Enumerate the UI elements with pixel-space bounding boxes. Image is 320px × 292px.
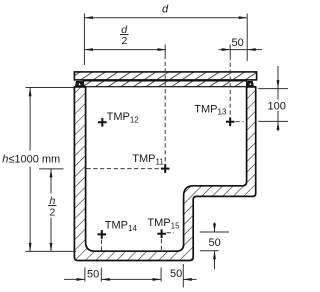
dim line 50 right vertical top seg — [214, 223, 216, 233]
arrow 100 bottom (outside, points up) — [277, 121, 280, 129]
arrow 100 top (outside, points down) — [277, 80, 280, 89]
d/2 fraction bar — [120, 34, 129, 36]
ext line interior bottom right — [200, 250, 219, 252]
h/2 fraction bar — [48, 205, 56, 207]
arrow h bottom — [29, 243, 32, 252]
dim line d — [84, 17, 247, 19]
svg-text:50: 50 — [170, 268, 182, 280]
cross TMP13 — [226, 118, 235, 127]
dashed line TMP11 level horizontal — [87, 168, 163, 170]
ext line interior top left — [26, 87, 75, 89]
dim line h/2 lower segment — [50, 218, 52, 252]
dim line bottom right outer — [183, 278, 196, 280]
dim line h lower segment — [29, 167, 31, 252]
svg-text:100: 100 — [268, 101, 286, 113]
arrow 50right top (outside, points down) — [213, 224, 216, 233]
svg-text:2: 2 — [122, 35, 128, 47]
arrow 50top left (outside) — [222, 48, 231, 51]
ext line bottom 50a right — [100, 268, 102, 282]
centerline d/2 down to TMP11 — [164, 55, 166, 167]
ext line bottom 50a left — [84, 268, 86, 282]
ext line 100 bottom — [258, 120, 288, 122]
lid flange bar — [84, 81, 247, 87]
cross TMP11 — [161, 164, 170, 173]
ext line bottom 50b left — [160, 268, 162, 282]
ext line left interior (top dims) — [83, 14, 85, 66]
cross TMP12 — [98, 118, 107, 127]
label 100 right, white bg — [267, 100, 287, 112]
ext line bottom 50b right — [182, 264, 184, 288]
ext line TMP15 level right — [200, 231, 229, 233]
dash TMP13 to right wall — [236, 121, 244, 123]
dim line 50 top — [219, 49, 263, 51]
fraction bars — [48, 35, 129, 206]
arrow h/2 bottom — [50, 243, 53, 252]
dim line h upper segment — [29, 88, 31, 151]
ext line TMP11 level left — [39, 168, 64, 170]
dim line d/2 — [84, 49, 166, 51]
dash TMP15 to ext line — [167, 232, 175, 234]
ext line top of 50 dim — [229, 45, 231, 57]
label h/2 fraction — [46, 195, 58, 217]
dashed construction lines — [87, 55, 244, 251]
svg-text:50: 50 — [87, 268, 99, 280]
dim line bottom middle — [101, 278, 161, 280]
dashed line down to TMP13 — [229, 56, 231, 120]
arrow 50top right (outside) — [247, 48, 256, 51]
arrow d left — [84, 16, 93, 19]
svg-text:2: 2 — [50, 207, 56, 219]
arrow d/2 right — [158, 48, 167, 51]
svg-text:d: d — [162, 4, 169, 16]
label 50 right vertical, white bg — [206, 237, 223, 249]
dashed stub below TMP14 — [101, 240, 103, 252]
arrow 50a right (inside-pointing from middle) — [101, 278, 110, 281]
ext line right interior (top dims) — [246, 14, 248, 62]
cross TMP15 — [157, 229, 166, 238]
dashed stub below TMP15 — [160, 239, 162, 251]
dim line 50 right vertical bottom seg — [214, 251, 216, 269]
cross TMP14 — [98, 230, 107, 239]
TMP crosses — [98, 118, 235, 239]
arrow d right — [239, 16, 248, 19]
ext line interior bottom left — [26, 250, 77, 252]
dim line bottom left outer — [64, 278, 85, 280]
ext line 100 top — [258, 88, 288, 90]
dim line 100 — [277, 66, 279, 89]
arrow 50a left (outside) — [76, 278, 85, 281]
svg-text:h≤1000 mm: h≤1000 mm — [2, 154, 60, 166]
lid (top cover bar) — [74, 72, 256, 80]
ext line centerline top — [164, 45, 166, 56]
arrow 50right bottom (outside, points up) — [213, 251, 216, 259]
left seal blob — [75, 81, 84, 86]
dim line h/2 upper segment — [50, 169, 52, 194]
arrow 50b right (outside) — [183, 278, 192, 281]
arrow h top — [29, 88, 32, 97]
arrows — [29, 16, 280, 281]
arrow d/2 left — [84, 48, 93, 51]
tank body walls (hatched) — [74, 87, 255, 261]
svg-text:50: 50 — [232, 37, 244, 49]
arrow 50b left (inside-pointing from middle) — [153, 278, 162, 281]
arrow h/2 top — [50, 169, 53, 178]
right seal blob — [247, 81, 254, 86]
svg-text:50: 50 — [209, 237, 221, 249]
